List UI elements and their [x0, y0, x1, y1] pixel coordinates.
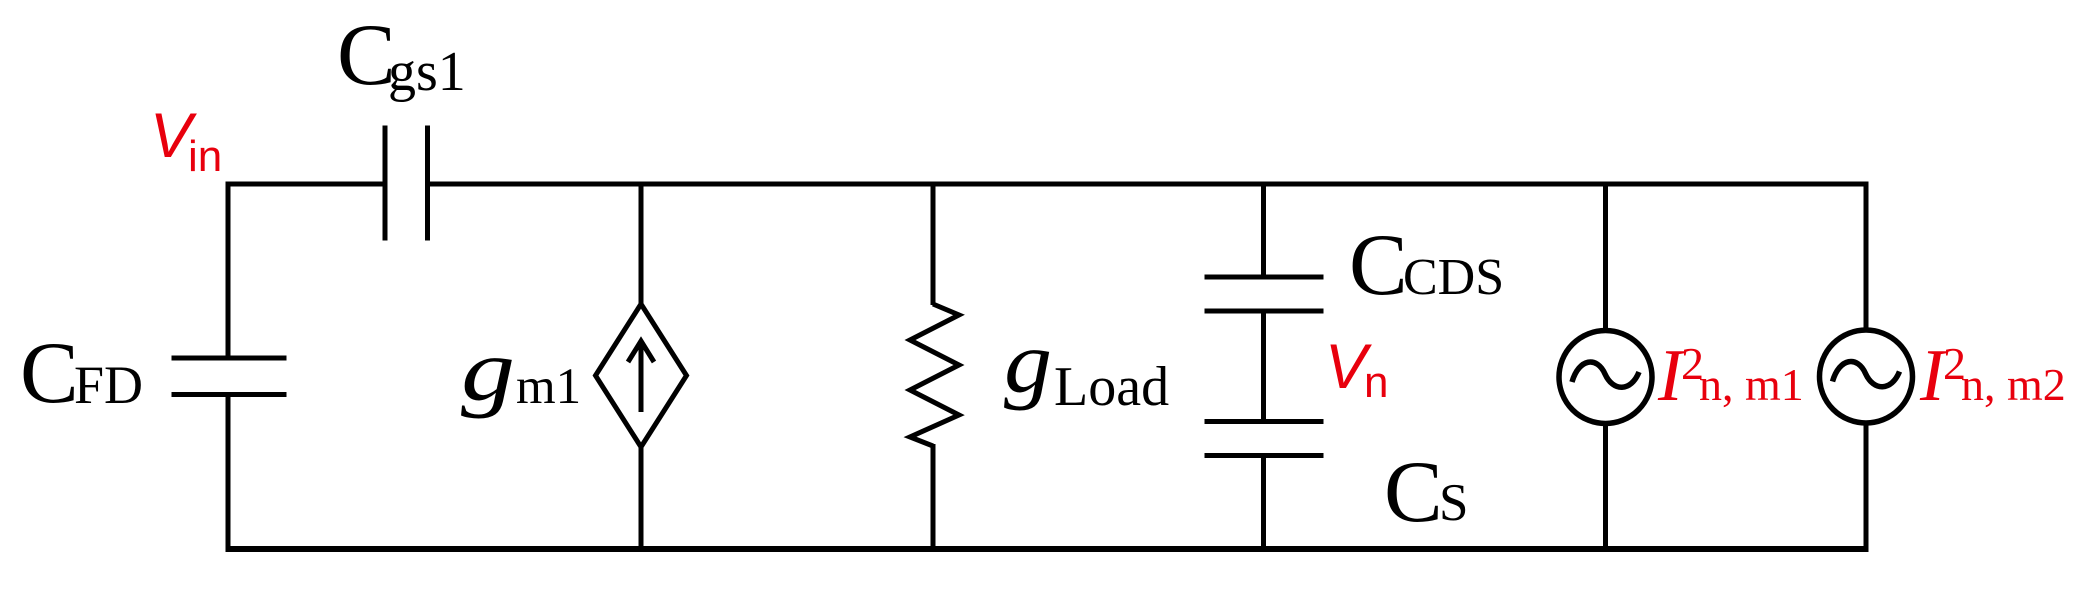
- wire gm1 branch lower: [639, 445, 644, 549]
- current source U2 circle (In,m1): [1559, 331, 1652, 424]
- svg-text:S: S: [1439, 474, 1468, 532]
- svg-text:g: g: [1004, 315, 1052, 412]
- sine symbol inside U3: [1833, 362, 1900, 387]
- capacitor C2 plates (CFD, left branch): [172, 358, 287, 395]
- wire bottom rail: [226, 546, 1869, 552]
- svg-text:gs1: gs1: [388, 41, 466, 103]
- arrow inside gm1 source: [628, 341, 654, 412]
- wire noise source 1 branch upper: [1603, 182, 1608, 334]
- current source U3 circle (In,m2): [1820, 330, 1913, 423]
- wire resistor branch lower: [931, 444, 936, 549]
- svg-text:n: n: [1364, 358, 1388, 407]
- wire top rail left segment: [228, 182, 383, 187]
- wire node Vn between capacitors: [1261, 313, 1266, 420]
- svg-text:C: C: [337, 7, 396, 104]
- svg-text:n, m2: n, m2: [1961, 359, 2066, 410]
- wire right vertical lower: [1864, 422, 1869, 550]
- sine symbol inside U2: [1572, 362, 1639, 387]
- svg-text:in: in: [188, 132, 222, 181]
- wire gm1 branch upper: [639, 182, 644, 307]
- wire noise source 1 branch lower: [1603, 422, 1608, 549]
- wire left vertical upper: [226, 182, 231, 357]
- wire right vertical upper: [1864, 182, 1869, 334]
- capacitor C1 plates (Cgs1, series in top rail): [385, 126, 428, 241]
- resistor R1 zigzag (gLoad): [910, 304, 959, 446]
- capacitor C3 plates (CCDS): [1205, 277, 1324, 311]
- wire resistor branch upper: [931, 182, 936, 306]
- dependent current source U1 diamond (gm1): [596, 304, 687, 447]
- svg-text:CDS: CDS: [1403, 249, 1504, 306]
- wire left vertical lower: [226, 396, 231, 549]
- wire CS branch lower: [1261, 458, 1266, 550]
- svg-text:g: g: [461, 323, 515, 420]
- svg-text:C: C: [1349, 217, 1408, 314]
- wire top rail right segment: [430, 182, 1866, 187]
- svg-text:n, m1: n, m1: [1699, 359, 1804, 410]
- wire CDS branch upper: [1261, 182, 1266, 276]
- svg-text:m1: m1: [516, 359, 581, 415]
- svg-text:Load: Load: [1054, 356, 1169, 418]
- svg-text:C: C: [1384, 444, 1443, 541]
- svg-text:C: C: [20, 325, 79, 422]
- capacitor C4 plates (CS): [1205, 422, 1324, 456]
- svg-text:FD: FD: [74, 355, 143, 415]
